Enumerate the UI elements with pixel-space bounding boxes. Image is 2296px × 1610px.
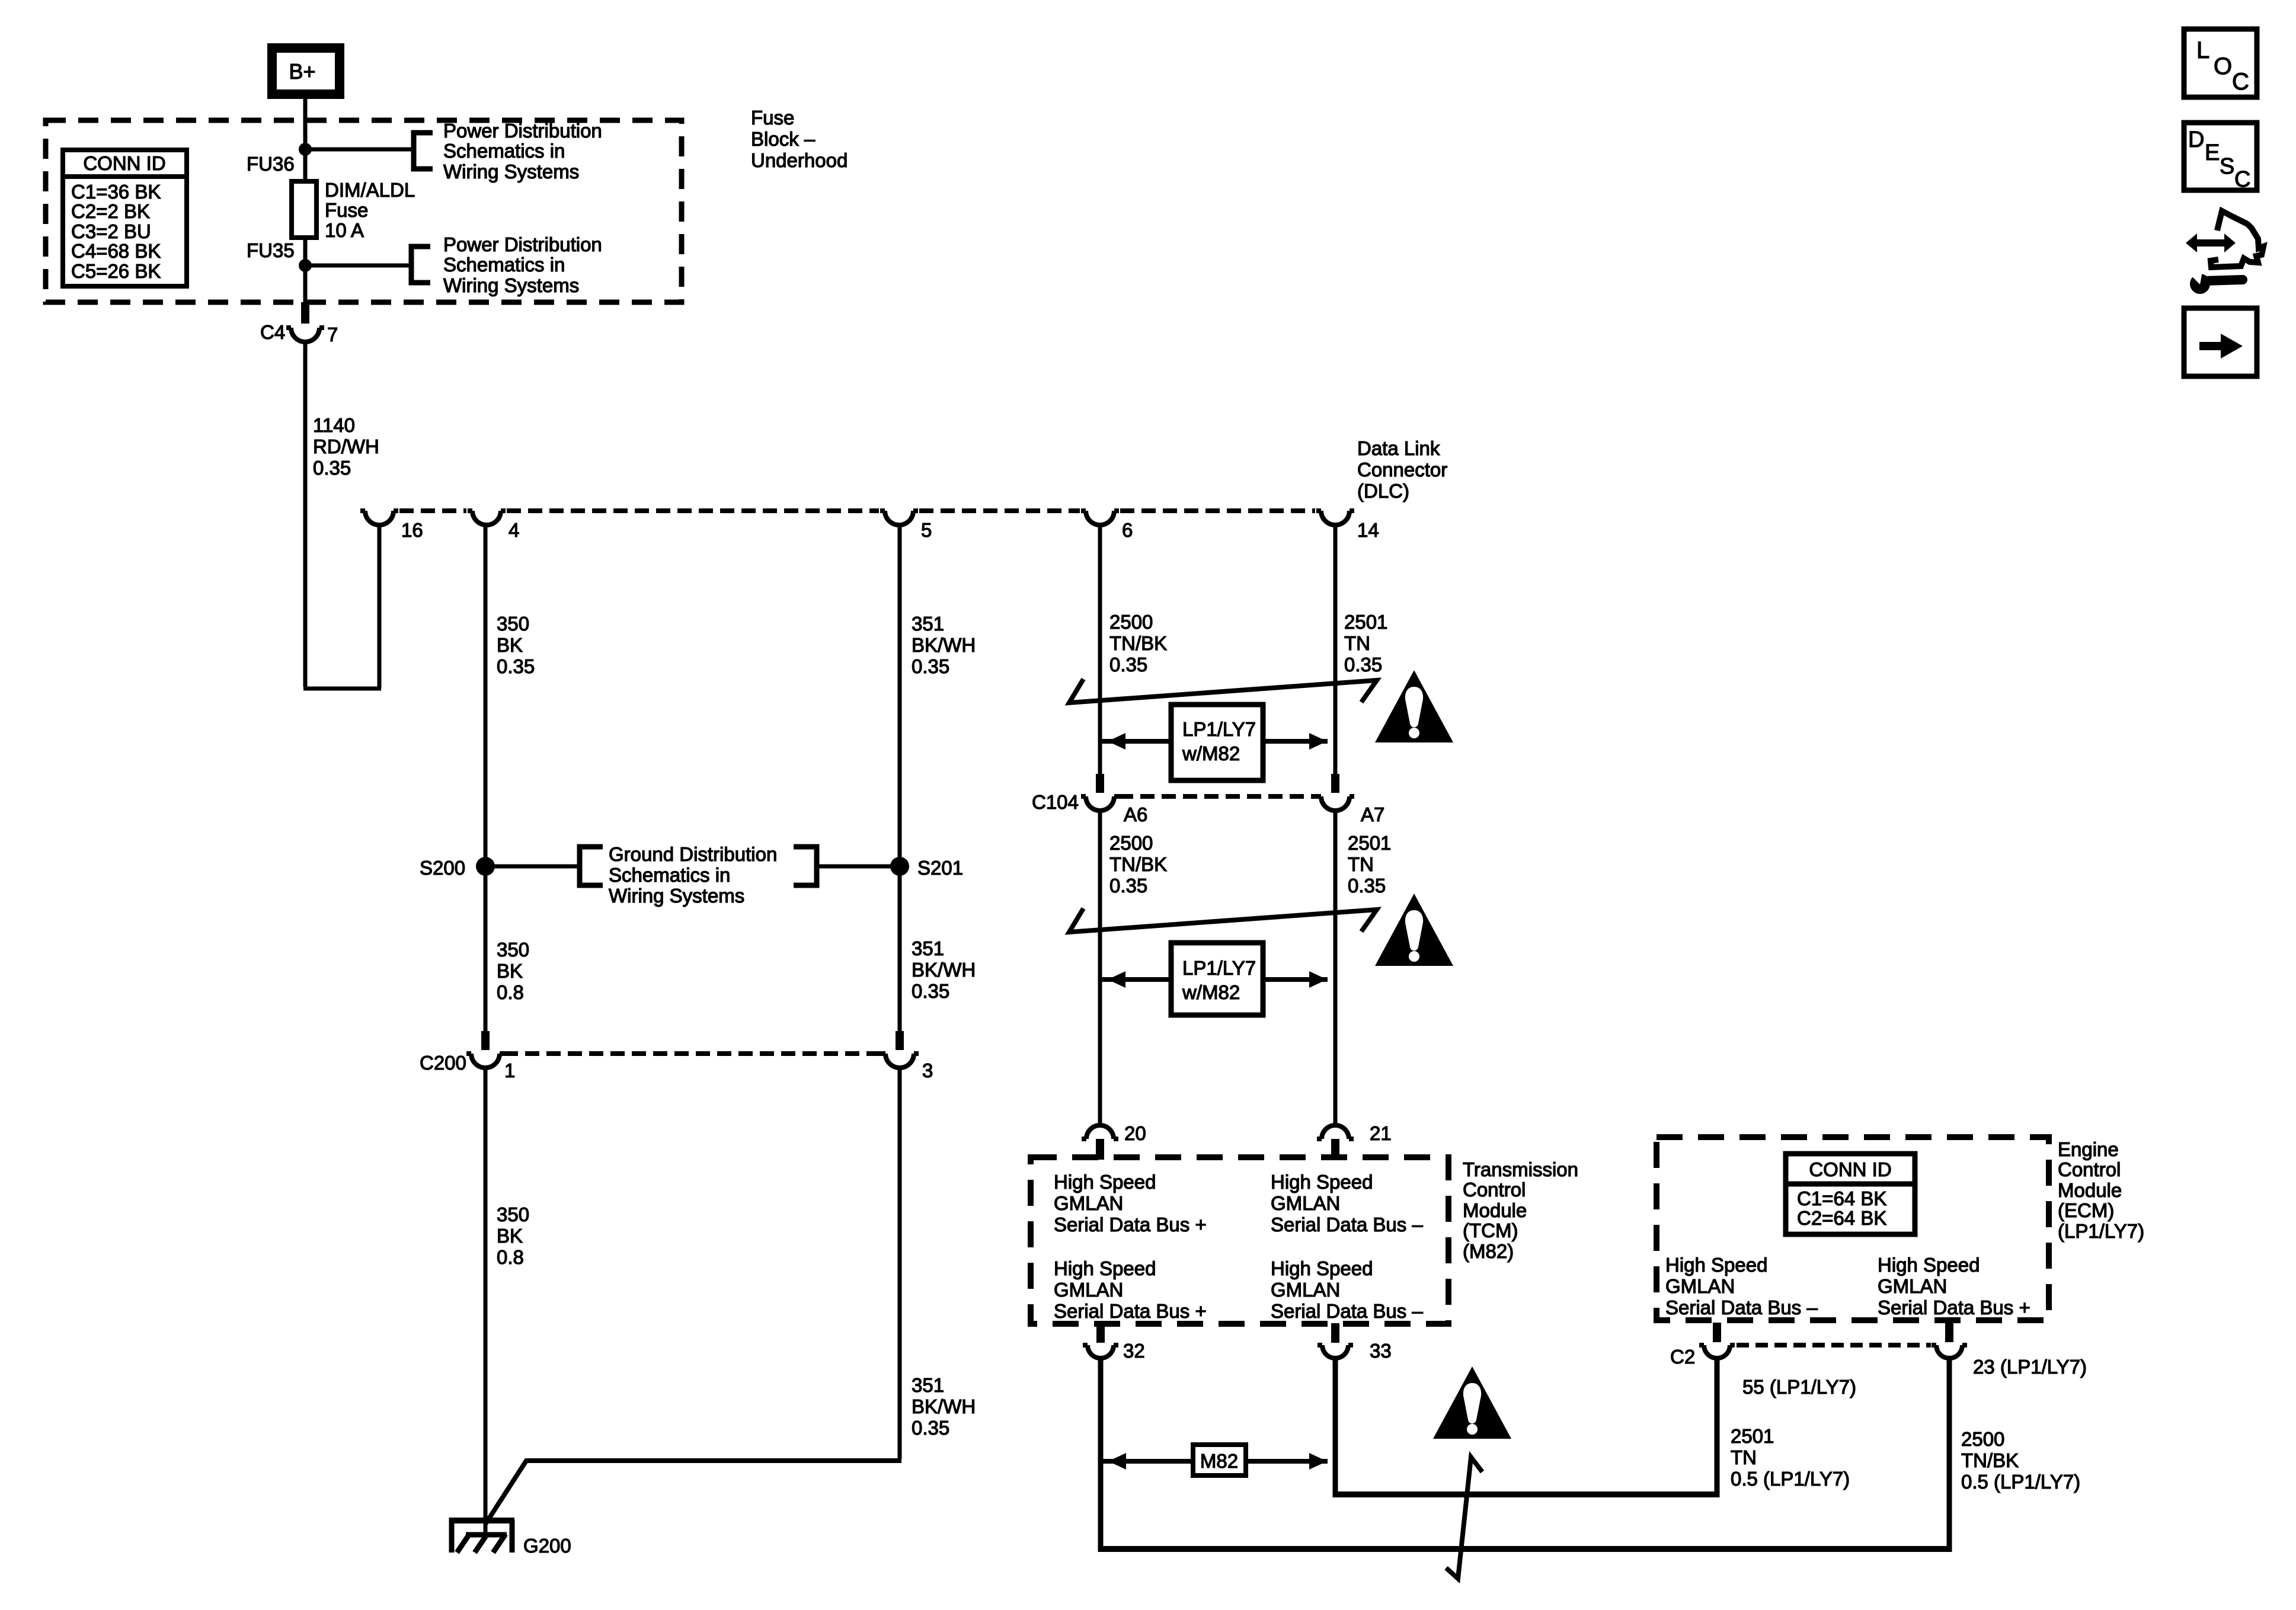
svg-text:BK/WH: BK/WH	[912, 1395, 976, 1417]
label pin 1	[504, 1060, 515, 1081]
svg-text:C3=2 BU: C3=2 BU	[71, 220, 151, 242]
label S200	[420, 857, 465, 879]
DLC bus dashed line	[399, 508, 1315, 513]
DLC connector pin 4	[468, 511, 506, 525]
svg-text:33: 33	[1370, 1340, 1392, 1362]
svg-text:Control: Control	[2058, 1158, 2121, 1180]
connector ECM pin 23	[1932, 1323, 1967, 1358]
svg-text:LP1/LY7: LP1/LY7	[1182, 957, 1256, 979]
svg-text:0.35: 0.35	[313, 457, 351, 479]
svg-text:0.35: 0.35	[912, 1417, 949, 1439]
svg-text:32: 32	[1123, 1340, 1145, 1362]
svg-text:(ECM): (ECM)	[2058, 1199, 2114, 1221]
svg-text:GMLAN: GMLAN	[1271, 1279, 1340, 1301]
label pin 32	[1123, 1340, 1145, 1362]
svg-text:2500: 2500	[1109, 832, 1153, 854]
svg-text:S200: S200	[420, 857, 465, 879]
svg-text:TN/BK: TN/BK	[1961, 1449, 2019, 1471]
bracket FU36 tap	[414, 133, 433, 169]
svg-text:G200: G200	[523, 1535, 571, 1557]
warning symbol 2	[1375, 894, 1453, 966]
connector ECM pin C2 (55)	[1699, 1323, 1735, 1358]
fuse block - underhood dashed box	[46, 120, 682, 302]
power symbol B+	[272, 48, 340, 94]
svg-text:Data Link: Data Link	[1357, 437, 1440, 459]
junction S200	[476, 857, 495, 876]
svg-text:LP1/LY7: LP1/LY7	[1182, 718, 1256, 740]
label Ground Distribution	[609, 843, 777, 907]
label 351 BK/WH 0.35 (middle)	[912, 937, 976, 1002]
connector TCM pin 32	[1083, 1323, 1118, 1358]
wire 350 BK to ground	[484, 1068, 488, 1532]
svg-text:Schematics in: Schematics in	[609, 864, 730, 886]
svg-text:350: 350	[497, 939, 529, 961]
inline dashed line C2 to 23	[1737, 1343, 1931, 1347]
label C200	[420, 1052, 466, 1074]
svg-text:Transmission: Transmission	[1463, 1158, 1578, 1180]
svg-text:Wiring Systems: Wiring Systems	[443, 274, 579, 296]
label 2501 TN 0.35 (middle)	[1348, 832, 1391, 897]
svg-text:GMLAN: GMLAN	[1665, 1275, 1735, 1297]
label C2	[1670, 1346, 1695, 1368]
wire 1140 RD/WH down from C4	[303, 342, 308, 687]
svg-text:C4: C4	[260, 321, 285, 343]
junction S201	[890, 857, 909, 876]
svg-text:Connector: Connector	[1357, 459, 1447, 481]
label Fuse Block - Underhood	[751, 107, 848, 171]
svg-text:Serial Data Bus –: Serial Data Bus –	[1271, 1300, 1423, 1322]
svg-text:0.5 (LP1/LY7): 0.5 (LP1/LY7)	[1731, 1468, 1850, 1490]
connector C4 pin 7	[286, 302, 324, 342]
svg-text:0.35: 0.35	[1344, 654, 1382, 676]
svg-text:C2: C2	[1670, 1346, 1695, 1368]
svg-text:21: 21	[1370, 1122, 1392, 1144]
svg-text:E: E	[2205, 140, 2220, 165]
svg-text:O: O	[2214, 53, 2232, 79]
label pin 5	[921, 519, 932, 541]
label Power Distribution (lower)	[443, 233, 602, 296]
wire 2501 TN horizontal 33 to C2	[1333, 1491, 1719, 1497]
wire FU35 tap	[305, 264, 411, 268]
icon LOC box	[2184, 29, 2257, 97]
label pin 20	[1124, 1122, 1146, 1144]
svg-text:Ground Distribution: Ground Distribution	[609, 843, 777, 865]
svg-text:FU35: FU35	[247, 239, 295, 261]
svg-text:351: 351	[912, 613, 944, 635]
label A6	[1124, 804, 1147, 825]
label pin 6	[1122, 519, 1133, 541]
label 55 (LP1/LY7)	[1742, 1376, 1856, 1398]
connector C200 pin 1	[466, 1031, 504, 1068]
label 350 BK 0.8 (lower)	[497, 1204, 529, 1268]
svg-text:BK/WH: BK/WH	[912, 634, 976, 656]
svg-text:Serial Data Bus +: Serial Data Bus +	[1054, 1300, 1207, 1322]
label pin 3	[922, 1060, 933, 1081]
label pin 4	[509, 519, 519, 541]
label pin 33	[1370, 1340, 1392, 1362]
bracket FU35 tap	[411, 247, 430, 283]
svg-text:Fuse: Fuse	[325, 199, 368, 221]
label S201	[917, 857, 963, 879]
svg-text:20: 20	[1124, 1122, 1146, 1144]
wire bracket to S201	[817, 865, 900, 869]
svg-text:7: 7	[327, 324, 338, 345]
svg-text:(LP1/LY7): (LP1/LY7)	[2058, 1220, 2144, 1242]
bracket ground distribution left	[580, 847, 603, 885]
svg-text:C: C	[2232, 69, 2249, 95]
wire ECM 23 down (2500 TN/BK)	[1947, 1358, 1952, 1552]
wire 350 BK upper	[484, 525, 488, 866]
icon DESC box	[2184, 123, 2257, 192]
wire TCM 32 down	[1098, 1358, 1104, 1552]
svg-text:C2=64 BK: C2=64 BK	[1797, 1207, 1886, 1229]
svg-text:1: 1	[504, 1060, 515, 1081]
svg-text:6: 6	[1122, 519, 1133, 541]
svg-text:C4=68 BK: C4=68 BK	[71, 240, 161, 262]
TCM dashed box	[1031, 1157, 1448, 1324]
svg-text:A7: A7	[1361, 804, 1384, 825]
label G200	[523, 1535, 571, 1557]
svg-text:High Speed: High Speed	[1054, 1257, 1156, 1279]
label Power Distribution (upper)	[443, 120, 602, 183]
fuse FU DIM/ALDL 10A	[292, 181, 316, 238]
svg-text:16: 16	[401, 519, 423, 541]
svg-text:Wiring Systems: Wiring Systems	[609, 885, 744, 907]
svg-text:0.35: 0.35	[912, 980, 949, 1002]
svg-text:(M82): (M82)	[1463, 1240, 1514, 1262]
svg-text:0.35: 0.35	[497, 655, 535, 677]
svg-text:0.8: 0.8	[497, 1246, 524, 1268]
svg-text:Power Distribution: Power Distribution	[443, 120, 602, 142]
wire ECM C2 down (2501 TN)	[1715, 1358, 1720, 1497]
inline connector C200 dashed line	[504, 1051, 883, 1056]
svg-text:BK: BK	[497, 634, 523, 656]
svg-text:(DLC): (DLC)	[1357, 480, 1409, 502]
svg-text:1140: 1140	[313, 414, 355, 436]
wire 2500 TN/BK upper	[1098, 525, 1102, 774]
svg-text:Block –: Block –	[751, 128, 816, 150]
label 351 BK/WH 0.35 (upper)	[912, 613, 976, 677]
connector C104 pin A6	[1081, 774, 1119, 811]
label 350 BK 0.8	[497, 939, 529, 1003]
DLC connector pin 14	[1316, 511, 1354, 525]
svg-text:M82: M82	[1200, 1450, 1238, 1472]
svg-text:Serial Data Bus +: Serial Data Bus +	[1878, 1297, 2030, 1318]
svg-text:B+: B+	[289, 59, 315, 84]
svg-text:TN: TN	[1348, 853, 1374, 875]
svg-text:High Speed: High Speed	[1271, 1257, 1373, 1279]
wire 2500 TN/BK middle	[1098, 811, 1102, 1125]
label 23 (LP1/LY7)	[1973, 1356, 2087, 1378]
wire S200 to bracket	[485, 865, 580, 869]
svg-text:C5=26 BK: C5=26 BK	[71, 260, 161, 282]
off-page reference line 1	[1069, 679, 1377, 703]
TCM pin function labels row 2	[1054, 1257, 1423, 1322]
svg-text:10 A: 10 A	[325, 219, 364, 241]
svg-text:Underhood: Underhood	[751, 149, 848, 171]
svg-text:GMLAN: GMLAN	[1271, 1192, 1340, 1214]
svg-text:C104: C104	[1032, 791, 1079, 813]
label 351 BK/WH 0.35 (lower)	[912, 1374, 976, 1439]
wire fuse to FU35	[303, 238, 308, 302]
svg-text:w/M82: w/M82	[1182, 742, 1240, 764]
svg-text:Wiring Systems: Wiring Systems	[443, 161, 579, 183]
label pin 7	[327, 324, 338, 345]
svg-text:High Speed: High Speed	[1878, 1254, 1980, 1276]
svg-text:Module: Module	[1463, 1199, 1527, 1221]
DLC connector pin 5	[880, 511, 918, 525]
svg-text:2500: 2500	[1109, 611, 1153, 633]
svg-text:BK: BK	[497, 1225, 523, 1247]
svg-text:23 (LP1/LY7): 23 (LP1/LY7)	[1973, 1356, 2087, 1378]
svg-text:Engine: Engine	[2058, 1138, 2119, 1160]
svg-text:DIM/ALDL: DIM/ALDL	[325, 179, 415, 201]
svg-text:L: L	[2196, 37, 2209, 63]
connector TCM pin 33	[1318, 1323, 1353, 1358]
svg-text:w/M82: w/M82	[1182, 981, 1240, 1003]
svg-text:14: 14	[1357, 519, 1379, 541]
svg-text:C1=64 BK: C1=64 BK	[1797, 1188, 1886, 1209]
DLC connector pin 6	[1081, 511, 1119, 525]
label Data Link Connector (DLC)	[1357, 437, 1447, 502]
svg-text:0.5 (LP1/LY7): 0.5 (LP1/LY7)	[1961, 1471, 2080, 1493]
svg-text:55 (LP1/LY7): 55 (LP1/LY7)	[1742, 1376, 1856, 1398]
junction FU36	[299, 143, 312, 156]
connector TCM pin 21	[1317, 1125, 1354, 1160]
wire 350 BK lower	[484, 866, 488, 1033]
svg-text:5: 5	[921, 519, 932, 541]
TCM pin function labels row 1	[1054, 1171, 1423, 1235]
label 2501 TN 0.35 (upper)	[1344, 611, 1387, 676]
wire TCM 33 down	[1333, 1358, 1338, 1497]
wire 351 BK/WH to ground join	[485, 1068, 901, 1524]
junction FU35	[299, 259, 312, 272]
svg-text:TN: TN	[1344, 632, 1370, 654]
label C4	[260, 321, 285, 343]
svg-text:350: 350	[497, 1204, 529, 1225]
svg-text:TN/BK: TN/BK	[1109, 853, 1167, 875]
svg-text:2500: 2500	[1961, 1428, 2004, 1450]
svg-text:BK/WH: BK/WH	[912, 959, 976, 981]
connector ID table (fuse block)	[63, 150, 187, 286]
label FU36	[247, 153, 295, 175]
ECM pin function labels	[1665, 1254, 2030, 1318]
svg-text:CONN ID: CONN ID	[1809, 1158, 1891, 1180]
svg-text:2501: 2501	[1348, 832, 1391, 854]
svg-text:Schematics in: Schematics in	[443, 254, 565, 276]
DLC connector pin 16	[360, 511, 398, 525]
label 2500 TN/BK 0.35 (upper)	[1109, 611, 1167, 676]
label FU35	[247, 239, 295, 261]
svg-text:Serial Data Bus +: Serial Data Bus +	[1054, 1214, 1207, 1235]
svg-text:C2=2 BK: C2=2 BK	[71, 200, 150, 222]
svg-text:Control: Control	[1463, 1179, 1526, 1201]
wire 2501 TN upper	[1334, 525, 1338, 774]
wire 351 BK/WH lower	[898, 866, 902, 1033]
connector C104 pin A7	[1316, 774, 1354, 811]
svg-text:C200: C200	[420, 1052, 466, 1074]
warning symbol 3	[1433, 1366, 1511, 1439]
svg-text:GMLAN: GMLAN	[1054, 1192, 1123, 1214]
label DIM/ALDL Fuse 10 A	[325, 179, 415, 241]
warning symbol 1	[1375, 670, 1453, 742]
svg-text:0.8: 0.8	[497, 981, 524, 1003]
svg-text:Module: Module	[2058, 1179, 2122, 1201]
connector ID table (ECM)	[1786, 1154, 1915, 1234]
label pin 16	[401, 519, 423, 541]
wire 351 BK/WH upper	[898, 525, 902, 866]
svg-text:S201: S201	[917, 857, 963, 879]
wire 2501 TN middle	[1334, 811, 1338, 1125]
wire loop bottom to pin 16	[303, 524, 381, 689]
svg-text:C1=36 BK: C1=36 BK	[71, 181, 161, 203]
svg-text:GMLAN: GMLAN	[1054, 1279, 1123, 1301]
off-page reference line 3	[1446, 1457, 1482, 1579]
svg-text:High Speed: High Speed	[1054, 1171, 1156, 1193]
svg-text:Fuse: Fuse	[751, 107, 794, 129]
svg-text:C: C	[2234, 167, 2250, 192]
svg-text:TN/BK: TN/BK	[1109, 632, 1167, 654]
svg-text:351: 351	[912, 937, 944, 959]
svg-text:S: S	[2220, 154, 2234, 179]
option arrow M82	[1101, 1445, 1328, 1475]
svg-text:4: 4	[509, 519, 519, 541]
svg-text:Serial Data Bus –: Serial Data Bus –	[1271, 1214, 1423, 1235]
svg-text:Serial Data Bus –: Serial Data Bus –	[1665, 1297, 1818, 1318]
label A7	[1361, 804, 1384, 825]
svg-text:350: 350	[497, 613, 529, 635]
wire B+ into fuse block	[303, 94, 308, 181]
inline connector C104 dashed line	[1119, 794, 1319, 799]
svg-text:High Speed: High Speed	[1271, 1171, 1373, 1193]
svg-text:FU36: FU36	[247, 153, 295, 175]
svg-text:351: 351	[912, 1374, 944, 1396]
connector TCM pin 20	[1082, 1125, 1118, 1160]
svg-text:3: 3	[922, 1060, 933, 1081]
label pin 21	[1370, 1122, 1392, 1144]
svg-text:0.35: 0.35	[1348, 875, 1386, 897]
svg-text:Power Distribution: Power Distribution	[443, 233, 602, 255]
label 350 BK 0.35	[497, 613, 535, 677]
option box LP1/LY7 w/M82 (upper)	[1100, 705, 1328, 780]
icon next-page arrow box	[2184, 308, 2257, 376]
bracket ground distribution right	[794, 847, 817, 885]
svg-text:D: D	[2188, 127, 2204, 152]
ECM dashed box	[1657, 1137, 2049, 1320]
svg-text:TN: TN	[1731, 1446, 1757, 1468]
svg-text:A6: A6	[1124, 804, 1147, 825]
option box LP1/LY7 w/M82 (lower)	[1100, 943, 1328, 1015]
connector C200 pin 3	[881, 1031, 919, 1068]
ground symbol G200	[449, 1518, 514, 1553]
svg-text:(TCM): (TCM)	[1463, 1219, 1518, 1241]
label Transmission Control Module (TCM) (M82)	[1463, 1158, 1578, 1262]
svg-text:CONN ID: CONN ID	[83, 152, 165, 174]
svg-text:BK: BK	[497, 960, 523, 982]
wire 2500 TN/BK horizontal 32 to 23	[1098, 1546, 1952, 1552]
wire FU36 tap	[305, 148, 414, 152]
svg-text:GMLAN: GMLAN	[1878, 1275, 1947, 1297]
svg-text:Schematics in: Schematics in	[443, 140, 565, 162]
svg-text:RD/WH: RD/WH	[313, 436, 379, 457]
icon remove/replace (arrow, part outline, wrench)	[2186, 211, 2263, 294]
label 2500 TN/BK 0.35 (middle)	[1109, 832, 1167, 897]
label 2501 TN 0.5 (LP1/LY7)	[1731, 1425, 1850, 1490]
off-page reference line 2	[1069, 908, 1377, 932]
svg-text:High Speed: High Speed	[1665, 1254, 1767, 1276]
label C104	[1032, 791, 1079, 813]
svg-text:0.35: 0.35	[1109, 875, 1147, 897]
label 1140 RD/WH 0.35	[313, 414, 379, 479]
svg-text:0.35: 0.35	[912, 655, 949, 677]
svg-text:2501: 2501	[1344, 611, 1387, 633]
svg-text:2501: 2501	[1731, 1425, 1774, 1447]
label pin 14	[1357, 519, 1379, 541]
label Engine Control Module (ECM) (LP1/LY7)	[2058, 1138, 2144, 1242]
svg-text:0.35: 0.35	[1109, 654, 1147, 676]
label 2500 TN/BK 0.5 (LP1/LY7)	[1961, 1428, 2080, 1493]
